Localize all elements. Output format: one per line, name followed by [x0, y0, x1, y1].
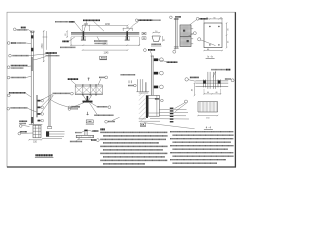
detail: anchor tee section — [70, 130, 99, 142]
welded stud row — [170, 108, 174, 123]
rail beam lines — [71, 32, 139, 36]
label: angle connector (left) — [55, 22, 82, 32]
svg-text:20: 20 — [220, 17, 222, 19]
support bracket S2 — [125, 31, 130, 40]
break marks right of beam end — [142, 32, 146, 39]
label: slotted holes under beam — [94, 37, 108, 44]
detail: hatched embed column — [180, 17, 208, 46]
embedded steel plate (dark) — [46, 131, 49, 136]
embedded dark plate — [146, 95, 148, 118]
svg-text:1150: 1150 — [105, 24, 111, 26]
mullion fin line — [36, 95, 39, 117]
detail: bolted plate plan — [198, 17, 230, 58]
callout: support steel beam — [7, 93, 31, 97]
section tick b top — [88, 78, 90, 81]
callout: 70x75 angle — [7, 107, 37, 112]
callout: countersunk bolt — [7, 42, 31, 45]
svg-text:b - b: b - b — [208, 55, 214, 59]
svg-text:90: 90 — [213, 17, 215, 19]
svg-text:40: 40 — [215, 92, 217, 94]
svg-text:45: 45 — [163, 39, 165, 41]
svg-text:4 - 4: 4 - 4 — [206, 125, 212, 129]
small 60 dimension over S2 — [123, 28, 134, 31]
detail: connection plan (cross) — [185, 70, 234, 97]
detail: embedded channel elevation with bolts — [144, 49, 178, 96]
right label: full glass wall — [41, 92, 74, 114]
base embed detail — [29, 124, 43, 137]
notes column 2 — [170, 132, 234, 164]
notes column 1 — [100, 129, 167, 164]
post joint fittings — [31, 35, 33, 38]
support bracket S1 — [81, 31, 86, 40]
svg-text:1145: 1145 — [104, 52, 110, 54]
label: rail support spacing — [83, 20, 104, 31]
X braces — [75, 86, 102, 93]
lower span dimension 1845 — [70, 37, 140, 46]
label: detail circle near notes top — [105, 117, 120, 123]
top label 150x150x6 plate — [211, 69, 226, 71]
mullion post — [31, 31, 35, 125]
label top-right circle — [99, 76, 105, 78]
V legs and dark tee — [83, 95, 87, 101]
floor slab lines — [42, 132, 65, 139]
slab fan lines — [139, 109, 189, 121]
vertical dimension beside post — [43, 31, 48, 63]
lower dimension 1145 — [82, 49, 129, 51]
section tick b bottom — [87, 112, 89, 115]
label top-left dark — [68, 78, 79, 80]
stud callout — [185, 100, 188, 103]
callout: bolt m6x30 — [7, 76, 31, 79]
section label box 1-1 — [99, 56, 107, 60]
left callout — [185, 78, 188, 81]
leader to right lower callout — [91, 103, 97, 107]
left vertical dim — [194, 82, 196, 96]
svg-text:1500: 1500 — [42, 43, 44, 49]
left detail: curtain-wall vertical section — [28, 31, 64, 144]
right callout — [231, 79, 234, 82]
detail: bracket truss band with X bracing — [68, 76, 114, 124]
glass setting block — [48, 126, 52, 129]
callout: spider fitting (two lines) — [7, 66, 31, 69]
svg-text:40: 40 — [192, 89, 194, 91]
left end depth dimension — [66, 31, 68, 38]
callout: embed bracket (two lines) — [19, 121, 29, 127]
detail: channel trapezoid section — [151, 31, 165, 46]
section label 3-3 — [140, 123, 146, 127]
upper dimension line 150/1150 — [82, 25, 129, 31]
section label box 2-2 — [86, 120, 93, 123]
long leader to 4-4 — [144, 123, 195, 129]
concrete hatch — [139, 93, 146, 121]
detail: anchor box embedded in concrete — [139, 93, 195, 129]
callout: anchor bolt bottom — [18, 132, 33, 135]
spider bolts on glass — [38, 99, 44, 122]
svg-text:40: 40 — [207, 92, 209, 94]
bottom dims — [203, 89, 221, 95]
svg-text:20: 20 — [206, 17, 208, 19]
caption: vertical section title — [35, 155, 54, 157]
plate top dimension — [203, 18, 223, 23]
base dimension 150 — [28, 139, 42, 140]
right label: bottom rail — [33, 53, 59, 60]
sheet background — [0, 0, 240, 180]
callout: tempered glass — [9, 54, 49, 57]
drawing frame — [7, 12, 236, 167]
detail: column sleeve above embed — [121, 75, 150, 92]
joint circles — [82, 84, 97, 95]
right label: structural sealant with curved leader — [50, 100, 80, 109]
label: 50x50x4 angle with circle — [128, 19, 161, 31]
plate right dimension — [226, 22, 228, 48]
top-middle detail: bottom rail elevation — [55, 19, 161, 60]
label 100x100x10 plate — [94, 114, 113, 116]
plate bottom dimension — [203, 50, 223, 51]
detail: decking stud grid 4-4 — [197, 102, 218, 130]
callout: top rail label — [13, 28, 33, 33]
label: 150x150x6 plate (grey) — [60, 46, 75, 48]
left-margin callout leaders and labels — [7, 28, 80, 158]
glass pane lines — [49, 53, 50, 128]
labels around tee — [75, 132, 82, 134]
anchor body box — [148, 95, 159, 116]
detail: edge plate elevation (vertical pair) — [170, 16, 181, 53]
leader to left lower callout — [71, 103, 84, 108]
label: bottom rail (dark, lower-left) — [62, 37, 75, 41]
